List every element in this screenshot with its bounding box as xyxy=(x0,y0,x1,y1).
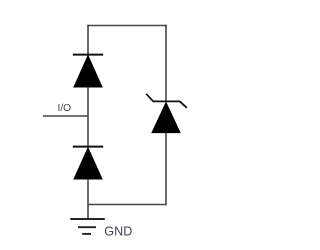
diode D2 body xyxy=(74,148,102,179)
diode D1 cathode bar xyxy=(73,54,103,56)
wire left middle (88,87)-(88,148) xyxy=(87,87,89,148)
ground bar 1 xyxy=(70,218,105,220)
wire top (88,25.5)-(166,25.5) xyxy=(87,25,166,27)
diode D2 cathode bar xyxy=(73,146,103,148)
zener D3 cathode bar with wings xyxy=(146,94,187,108)
wire left lower (88,179)-(88,219) xyxy=(87,179,89,219)
ground bar 3 xyxy=(82,233,91,235)
svg-text:I/O: I/O xyxy=(58,103,72,114)
wire I/O (43,116)-(88,116) xyxy=(43,115,88,117)
wire right lower (166,132.5)-(166,204.5) xyxy=(165,133,167,206)
svg-text:GND: GND xyxy=(104,225,132,239)
wire right upper (166,25)-(166,102) xyxy=(165,25,167,102)
wire bottom (88,204.5)-(166,204.5) xyxy=(88,204,167,206)
ground bar 2 xyxy=(78,226,96,228)
diode D1 body xyxy=(74,56,102,87)
zener D3 body xyxy=(152,103,180,133)
wire left upper (88,25)-(88,56) xyxy=(87,25,89,56)
